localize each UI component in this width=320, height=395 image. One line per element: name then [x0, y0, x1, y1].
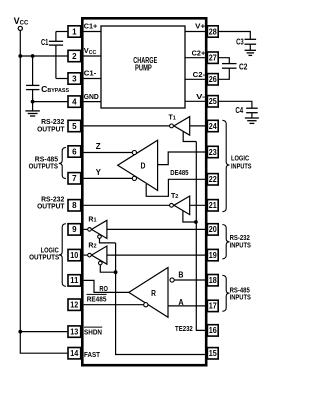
- svg-text:C1+: C1+: [84, 24, 98, 31]
- pin 19: [207, 249, 218, 260]
- pin 10: [68, 249, 81, 260]
- pin 14: [68, 348, 81, 359]
- capacitor CBYPASS: [26, 56, 69, 111]
- svg-text:C3: C3: [236, 37, 244, 46]
- brace RS-485 inputs pins 18-17: [222, 275, 251, 311]
- junction dot CBYPASS branch: [31, 54, 35, 58]
- svg-text:8: 8: [72, 201, 77, 210]
- svg-text:10: 10: [70, 251, 78, 260]
- wire R1 enable stub: [100, 238, 116, 243]
- svg-text:2: 2: [72, 52, 77, 61]
- wire pin 28 to C3: [218, 32, 250, 40]
- svg-text:1: 1: [72, 27, 77, 36]
- wire T2 output to pin 8: [84, 204, 170, 206]
- svg-text:OUTPUT: OUTPUT: [37, 124, 65, 133]
- svg-text:R1: R1: [88, 217, 96, 224]
- wire C1 to pin 3: [56, 78, 68, 80]
- svg-text:5: 5: [72, 122, 77, 131]
- wire pin 25 to C4: [218, 101, 252, 108]
- pin 26: [207, 74, 218, 85]
- svg-text:T2: T2: [171, 193, 178, 200]
- RS-485 receiver R: [129, 268, 174, 318]
- svg-text:19: 19: [209, 251, 217, 260]
- svg-text:3: 3: [72, 74, 77, 83]
- svg-text:11: 11: [70, 276, 79, 285]
- wire D enable DE485 to pin 22: [146, 168, 207, 196]
- junction dot left rail pin13: [18, 330, 22, 334]
- brace RS-485 outputs pins 6-7: [29, 147, 66, 178]
- wire A input to pin 17, node A: [168, 298, 207, 307]
- svg-text:16: 16: [209, 326, 217, 335]
- junction dot T2 enable on TE232 rail: [194, 220, 198, 224]
- wire charge pump to pin25, node V-: [185, 94, 206, 101]
- wire pin2 to charge pump, node VCC: [84, 46, 101, 56]
- svg-text:T1: T1: [169, 114, 176, 121]
- pin 23: [207, 146, 218, 157]
- wire RE232 rail to pin 15: [116, 243, 205, 355]
- pin 28: [207, 26, 218, 37]
- receiver R2: [88, 243, 107, 265]
- pin 27: [207, 52, 218, 63]
- wire R1 input to pin 20: [107, 228, 207, 230]
- svg-text:OUTPUTS: OUTPUTS: [29, 161, 58, 170]
- pin 1: [68, 26, 81, 37]
- svg-text:RE485: RE485: [87, 294, 107, 303]
- svg-text:C1-: C1-: [84, 71, 97, 78]
- wire GND pin 4 external: [33, 101, 68, 103]
- svg-text:12: 12: [70, 301, 78, 310]
- ground symbol below C3: [245, 50, 256, 55]
- pin 22: [207, 174, 218, 185]
- svg-text:INPUTS: INPUTS: [231, 161, 252, 170]
- wire left rail to pin 14: [20, 332, 68, 354]
- svg-text:20: 20: [209, 225, 217, 234]
- wire RE485 from pin 12 to R enable: [84, 294, 144, 304]
- wire charge pump to pin26, node C2-: [185, 72, 206, 79]
- driver T1: [169, 114, 190, 135]
- svg-text:SHDN: SHDN: [84, 327, 102, 336]
- junction dot R2 enable on RE232 rail: [114, 270, 118, 274]
- pin 2: [68, 50, 81, 61]
- svg-text:A: A: [178, 298, 184, 307]
- svg-text:D: D: [141, 161, 146, 170]
- wire Y output pin 7: [84, 168, 137, 180]
- svg-text:24: 24: [209, 122, 217, 131]
- pin 7: [68, 173, 81, 184]
- svg-text:23: 23: [209, 148, 217, 157]
- svg-text:FAST: FAST: [84, 350, 100, 359]
- capacitor C3: [236, 37, 256, 50]
- svg-text:21: 21: [209, 201, 217, 210]
- pin 24: [207, 120, 218, 131]
- svg-text:7: 7: [72, 174, 77, 183]
- svg-text:C1: C1: [41, 38, 49, 47]
- wire pin3 to charge pump, node C1-: [84, 71, 101, 79]
- pin 3: [68, 73, 81, 84]
- svg-text:GND: GND: [84, 94, 99, 101]
- svg-text:15: 15: [209, 349, 217, 358]
- svg-text:CBYPASS: CBYPASS: [41, 84, 69, 94]
- pin 25: [207, 96, 218, 107]
- wire VCC row to pin 2: [20, 55, 68, 57]
- label RS-232 OUTPUT pin 5: [37, 117, 65, 133]
- wire B input to pin 18, node B: [174, 271, 207, 280]
- label SHDN pin 13: [84, 327, 102, 336]
- wire C1 to pin 1: [56, 31, 68, 33]
- svg-text:13: 13: [70, 327, 78, 336]
- svg-text:14: 14: [70, 349, 78, 358]
- svg-text:V+: V+: [195, 24, 205, 31]
- svg-text:B: B: [178, 271, 183, 280]
- label RS-232 OUTPUT pin 8: [37, 194, 65, 210]
- wire T2 enable stub: [183, 211, 196, 222]
- svg-text:17: 17: [209, 302, 217, 311]
- svg-text:INPUTS: INPUTS: [230, 240, 251, 249]
- pin 20: [207, 224, 218, 235]
- wire R2 input to pin 19: [107, 254, 207, 256]
- svg-text:PUMP: PUMP: [135, 64, 152, 73]
- wire R output RO to pin 11: [84, 280, 129, 293]
- pin 15: [207, 348, 218, 359]
- pin 4: [68, 96, 81, 107]
- pin 21: [207, 200, 218, 211]
- ground symbol below C4: [245, 118, 259, 123]
- wire T1 output to pin 5: [84, 125, 170, 127]
- svg-text:OUTPUTS: OUTPUTS: [29, 253, 59, 262]
- svg-text:OUTPUT: OUTPUT: [37, 202, 65, 211]
- svg-text:C2-: C2-: [193, 72, 206, 79]
- wire charge pump to pin27, node C2+: [185, 51, 205, 58]
- wire pin4 to charge pump, node GND: [84, 94, 101, 102]
- capacitor C4: [235, 106, 257, 118]
- wire pin 27 to C2: [218, 58, 229, 64]
- capacitor C1: [41, 32, 63, 79]
- receiver R1: [88, 217, 107, 239]
- pin 6: [68, 146, 81, 157]
- junction dot VCC rail: [18, 54, 22, 58]
- svg-text:DE485: DE485: [170, 168, 188, 177]
- svg-text:4: 4: [72, 97, 77, 106]
- pin 11: [68, 275, 81, 286]
- svg-text:6: 6: [72, 147, 77, 156]
- svg-text:Y: Y: [96, 168, 102, 177]
- capacitor C2: [222, 62, 248, 71]
- charge pump block: [101, 26, 185, 108]
- driver T2: [170, 193, 190, 215]
- svg-text:9: 9: [72, 225, 77, 234]
- wire R2 enable stub: [100, 265, 115, 272]
- svg-text:R: R: [151, 289, 156, 298]
- wire VCC down to pin2 row: [19, 31, 21, 57]
- brace LOGIC inputs pins 24-21: [222, 120, 251, 211]
- svg-text:C2+: C2+: [192, 51, 206, 58]
- svg-text:27: 27: [209, 54, 217, 63]
- wire T1 input to pin 24: [190, 125, 208, 127]
- svg-text:25: 25: [209, 97, 217, 106]
- pin 13: [68, 326, 81, 337]
- pin 9: [68, 224, 81, 235]
- brace RS-232 inputs pins 20-19: [222, 225, 251, 259]
- pin 8: [68, 200, 81, 211]
- brace LOGIC outputs pins 9-11: [29, 224, 66, 287]
- svg-text:R2: R2: [88, 243, 96, 250]
- wire Z output pin 6: [84, 142, 137, 155]
- ground symbol below CBYPASS: [25, 111, 40, 116]
- svg-text:Z: Z: [96, 142, 101, 151]
- svg-text:C4: C4: [235, 106, 243, 115]
- svg-text:TE232: TE232: [175, 324, 193, 333]
- wire R1 output to pin 9: [84, 228, 88, 230]
- svg-text:26: 26: [209, 75, 217, 84]
- junction dot GND node: [31, 100, 35, 104]
- wire T1 enable stub: [183, 132, 196, 142]
- wire left rail VCC to pins 13,14: [20, 56, 68, 332]
- pin 18: [207, 275, 218, 286]
- pin 5: [68, 120, 81, 131]
- IC body U1: [82, 18, 206, 365]
- wire pin 26 to C2: [218, 68, 229, 79]
- pin 16: [207, 325, 218, 336]
- svg-text:C2: C2: [239, 62, 248, 71]
- svg-text:INPUTS: INPUTS: [230, 293, 251, 302]
- wire TE232 rail: [196, 142, 205, 331]
- svg-text:28: 28: [209, 27, 217, 36]
- svg-text:V-: V-: [196, 94, 206, 101]
- svg-text:VCC: VCC: [84, 46, 97, 56]
- VCC supply terminal: [14, 16, 29, 31]
- wire R2 output to pin 10: [84, 254, 88, 256]
- wire T2 input to pin 21: [190, 204, 208, 206]
- pin 12: [68, 299, 81, 310]
- svg-text:18: 18: [209, 276, 217, 285]
- svg-text:RO: RO: [99, 284, 108, 293]
- svg-text:22: 22: [209, 175, 217, 184]
- wire D input to pin 23: [158, 152, 208, 165]
- svg-text:VCC: VCC: [14, 16, 29, 27]
- wire charge pump to pin28, node V+: [185, 24, 205, 32]
- wire pin1 to charge pump, node C1+: [84, 24, 101, 32]
- pin 17: [207, 300, 218, 311]
- RS-485 driver D: [118, 140, 158, 190]
